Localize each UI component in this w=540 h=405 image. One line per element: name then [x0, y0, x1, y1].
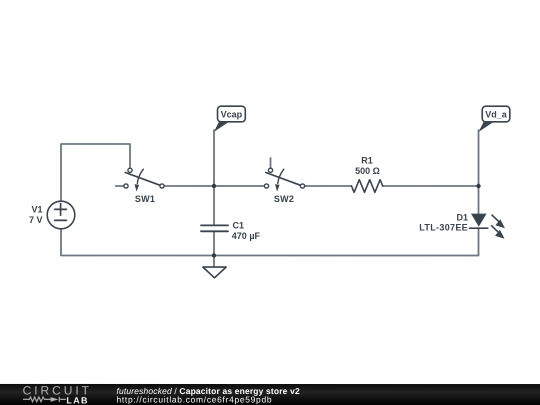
svg-text:500 Ω: 500 Ω	[355, 166, 380, 176]
svg-text:R1: R1	[361, 155, 373, 165]
SW2 designator label	[274, 194, 294, 204]
D1 designator and part number label	[419, 212, 468, 232]
wire capacitor C1 to bottom rail	[213, 231, 215, 255]
CircuitLab footer bar	[0, 384, 540, 405]
wire net Vcap riser	[213, 130, 215, 186]
junction at C1 bottom on rail	[212, 253, 216, 257]
wire node Vd_a down to LED D1 anode	[477, 186, 479, 214]
svg-text:7 V: 7 V	[29, 215, 43, 225]
switch SW1	[124, 168, 164, 191]
resistor R1	[352, 180, 383, 193]
svg-text:470 µF: 470 µF	[232, 231, 261, 241]
svg-text:Vcap: Vcap	[221, 110, 243, 120]
wire SW1 pole to SW2 left throw through node Vcap	[164, 185, 264, 187]
switch SW2	[264, 158, 304, 192]
CircuitLab logo resistor-diode glyph	[23, 397, 66, 402]
svg-text:LTL-307EE: LTL-307EE	[419, 223, 468, 233]
svg-text:http://circuitlab.com/ce6fr4pe: http://circuitlab.com/ce6fr4pe59pdb	[116, 395, 272, 405]
voltage source V1	[47, 201, 75, 229]
SW1 designator label	[135, 194, 155, 204]
ground	[203, 267, 226, 278]
junction node Vd_a on main wire	[476, 184, 480, 188]
wire net Vd_a riser	[478, 130, 480, 186]
svg-text:V1: V1	[31, 204, 42, 214]
wire bottom rail node to ground	[213, 255, 215, 267]
svg-text:D1: D1	[456, 212, 468, 222]
R1 designator and value label	[355, 155, 380, 176]
V1 designator and value label	[29, 204, 43, 224]
svg-text:C1: C1	[232, 220, 244, 230]
junction node Vcap on main wire	[212, 184, 216, 188]
svg-text:SW1: SW1	[135, 194, 155, 204]
C1 designator and value label	[232, 220, 261, 241]
wire from V1 plus terminal up and right to SW1 top throw	[61, 144, 130, 201]
wire resistor R1 to node Vd_a	[383, 185, 479, 187]
wire SW2 pole to resistor R1	[305, 185, 352, 187]
LED D1 light emission arrows	[491, 215, 505, 239]
LED D1	[469, 214, 487, 229]
wire LED D1 cathode to bottom rail and bottom rail to V1 minus terminal	[61, 228, 479, 255]
svg-text:SW2: SW2	[274, 194, 294, 204]
svg-text:LAB: LAB	[66, 395, 88, 405]
wire node Vcap down to capacitor C1	[213, 186, 215, 225]
capacitor C1	[201, 225, 228, 231]
net label Vd_a	[479, 106, 510, 132]
wire stub on SW1 unused left throw	[116, 185, 124, 187]
svg-text:Vd_a: Vd_a	[485, 110, 508, 120]
net label Vcap	[214, 106, 245, 132]
